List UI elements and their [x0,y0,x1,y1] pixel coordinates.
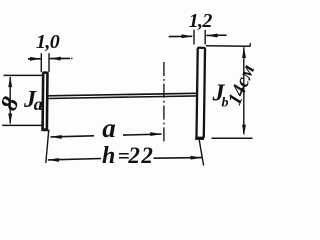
svg-text:22: 22 [127,143,154,168]
svg-text:a: a [34,94,43,114]
svg-text:h: h [102,143,115,169]
svg-text:1,2: 1,2 [189,10,213,32]
svg-text:1,0: 1,0 [36,31,60,53]
svg-text:a: a [102,113,116,143]
